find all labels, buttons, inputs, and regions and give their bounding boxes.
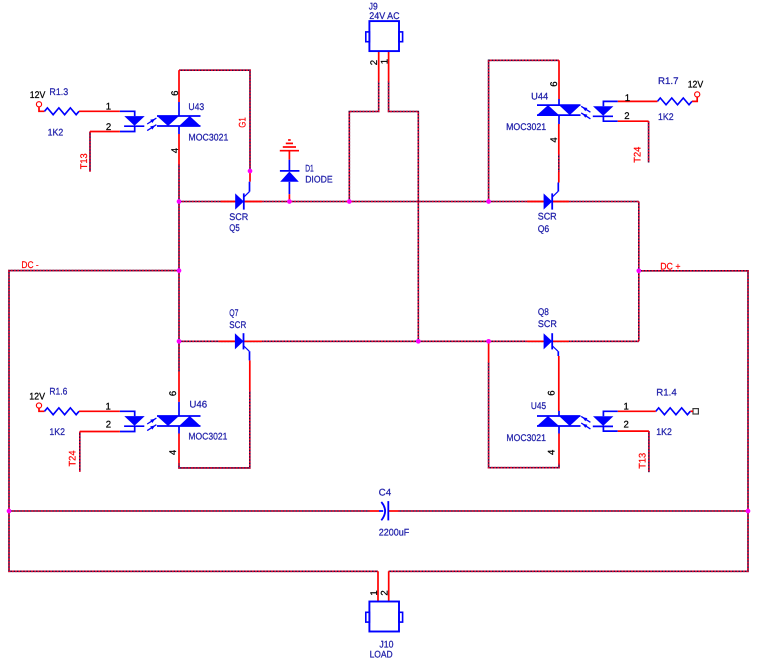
Q7 gate lead bbox=[249, 351, 251, 360]
U46 pin6 symbol lead bbox=[178, 402, 180, 416]
wire R1.7 to U44 pin1 bbox=[618, 100, 658, 102]
junction bus1/D1 bbox=[287, 199, 292, 204]
svg-text:6: 6 bbox=[549, 81, 560, 86]
svg-text:24V AC: 24V AC bbox=[369, 11, 399, 22]
svg-text:1K2: 1K2 bbox=[656, 427, 672, 438]
svg-text:G1: G1 bbox=[238, 117, 249, 128]
wire bus1 top bbox=[179, 201, 639, 203]
wire R1.6 to U46 pin1 bbox=[79, 410, 120, 412]
svg-text:12V: 12V bbox=[688, 80, 704, 91]
svg-text:1: 1 bbox=[106, 101, 111, 112]
wire 12V to R1.6 bbox=[39, 408, 45, 411]
svg-text:2: 2 bbox=[379, 590, 390, 595]
U44 pin6 symbol lead bbox=[558, 99, 560, 105]
wire Q6 anode pin bbox=[527, 201, 544, 203]
svg-text:SCR: SCR bbox=[229, 320, 246, 331]
Q6 gate lead bbox=[557, 183, 559, 192]
svg-text:T24: T24 bbox=[67, 450, 78, 467]
wire C4 right pin bbox=[388, 510, 398, 512]
svg-text:DC +: DC + bbox=[660, 262, 681, 273]
LED of optocoupler U46 bbox=[124, 416, 145, 426]
Q5 gate lead bbox=[249, 182, 251, 192]
U43 pin6 symbol lead bbox=[178, 102, 180, 116]
wire net DC- rail bbox=[9, 271, 378, 572]
wire U43 top box G1 bbox=[179, 70, 250, 171]
wire U44 top box bbox=[489, 60, 559, 201]
svg-text:SCR: SCR bbox=[538, 212, 557, 223]
resistor R1.4 bbox=[656, 408, 691, 415]
svg-text:T13: T13 bbox=[79, 153, 90, 169]
junction DC+ tap bbox=[636, 268, 641, 273]
svg-text:2200uF: 2200uF bbox=[379, 527, 410, 538]
svg-text:R1.4: R1.4 bbox=[656, 388, 677, 399]
wire Q7 gate stub bbox=[249, 360, 251, 390]
U44 pin2 elbow bbox=[603, 116, 617, 121]
ground bbox=[280, 140, 299, 151]
svg-text:Q7: Q7 bbox=[229, 308, 238, 319]
wire U46 pin2 to T24 bbox=[80, 431, 120, 433]
capacitor C4 bbox=[379, 501, 388, 520]
svg-text:6: 6 bbox=[547, 390, 558, 395]
wire Q8 anode pin bbox=[527, 340, 544, 342]
wire Q5 cathode pin bbox=[244, 201, 262, 203]
junction C4/DC- bbox=[7, 509, 12, 514]
svg-text:6: 6 bbox=[170, 91, 181, 96]
wire Q8 cathode pin bbox=[552, 340, 569, 342]
wire U45 pin4 stub bbox=[558, 434, 560, 464]
wire U43 pin4 wire bbox=[178, 164, 180, 202]
wire R1.4 to square bbox=[690, 410, 693, 412]
wire U45 pin4 to bus2 stub bbox=[488, 341, 490, 362]
resistor R1.3 bbox=[45, 108, 80, 115]
svg-text:12V: 12V bbox=[30, 90, 46, 101]
diode D1 bbox=[280, 160, 300, 195]
svg-text:12V: 12V bbox=[29, 391, 45, 402]
wire net DC+ rail bbox=[389, 271, 748, 572]
svg-text:2: 2 bbox=[624, 111, 629, 122]
Q8 gate lead bbox=[557, 351, 559, 356]
wire J9 pin 1 stub bbox=[388, 51, 390, 81]
junction G1 gate bbox=[248, 169, 253, 174]
svg-text:Q8: Q8 bbox=[538, 307, 549, 318]
wire R1.3 to U43 pin1 bbox=[79, 110, 120, 112]
svg-text:SCR: SCR bbox=[538, 319, 557, 330]
wire J10 pin 2 stub bbox=[388, 571, 390, 601]
resistor R1.7 bbox=[657, 98, 692, 105]
wire J9 pin 2 stub bbox=[378, 51, 380, 81]
U45 pin4 symbol lead bbox=[558, 426, 560, 434]
U46 pin4 symbol lead bbox=[178, 426, 180, 434]
junction bus2/J9 bbox=[416, 339, 421, 344]
connector J9 bbox=[366, 21, 403, 51]
wire U44 pin6 stub bbox=[558, 60, 560, 99]
svg-text:T24: T24 bbox=[632, 146, 643, 163]
wire net T24 stub bl bbox=[79, 432, 81, 472]
wire Q6 cathode pin bbox=[553, 201, 570, 203]
svg-text:Q6: Q6 bbox=[538, 224, 550, 235]
connector J10 bbox=[366, 602, 403, 632]
wire U45 pin2 to T13 bbox=[618, 430, 649, 432]
svg-text:R1.7: R1.7 bbox=[658, 76, 679, 87]
svg-text:2: 2 bbox=[106, 122, 111, 133]
wire R1.4 to U45 pin1 bbox=[618, 410, 656, 412]
junction bus1/J9 bbox=[347, 199, 352, 204]
junction bus1/left bbox=[177, 199, 182, 204]
svg-text:2: 2 bbox=[624, 420, 629, 431]
wire Q5 anode pin bbox=[220, 201, 235, 203]
wire U46 pin6 stub bbox=[178, 372, 180, 402]
svg-text:U44: U44 bbox=[531, 92, 549, 103]
svg-text:1: 1 bbox=[106, 401, 111, 412]
wire left vertical bus1-U46 bbox=[178, 202, 180, 372]
wire Q7 anode pin bbox=[219, 340, 235, 342]
svg-text:1: 1 bbox=[624, 401, 629, 412]
U43 pin2 elbow bbox=[120, 126, 135, 131]
svg-text:1: 1 bbox=[379, 59, 390, 64]
wire net T24 stub tr bbox=[648, 121, 650, 162]
wire right vertical bus1-bus2 bbox=[638, 202, 640, 342]
triac of U45 bbox=[537, 416, 581, 426]
light arrows of U43 bbox=[147, 118, 156, 131]
svg-text:2: 2 bbox=[369, 60, 380, 65]
U44 pin1 elbow bbox=[603, 101, 617, 106]
wire J9 pin2 to bus1 bbox=[349, 81, 378, 202]
svg-text:4: 4 bbox=[547, 449, 558, 455]
svg-text:4: 4 bbox=[168, 449, 179, 455]
wire Q6 gate stub bbox=[558, 172, 560, 183]
U45 pin1 elbow bbox=[603, 411, 617, 416]
open terminal 12V top-right bbox=[695, 92, 700, 97]
wire bus2 bottom bbox=[179, 340, 639, 342]
SCR Q7 bbox=[235, 333, 249, 351]
svg-text:1K2: 1K2 bbox=[48, 127, 64, 138]
U46 pin2 elbow bbox=[120, 426, 135, 431]
wire U46 pin4 stub bbox=[178, 434, 180, 464]
wire U44 pin4 stub bbox=[558, 124, 560, 154]
junction DC- tap bbox=[177, 268, 182, 273]
svg-text:U46: U46 bbox=[189, 400, 207, 411]
svg-text:SCR: SCR bbox=[229, 212, 248, 223]
wire U43 pin2 to T13 bbox=[90, 131, 120, 133]
svg-text:4: 4 bbox=[549, 137, 560, 143]
wire U43 pin4 stub bbox=[178, 134, 180, 164]
svg-text:4: 4 bbox=[170, 147, 181, 153]
light arrows of U44 bbox=[581, 106, 590, 119]
svg-text:1: 1 bbox=[625, 93, 630, 104]
svg-text:1: 1 bbox=[369, 590, 380, 595]
triac of U43 bbox=[157, 116, 201, 126]
wire U46 bottom box to Q7 gate bbox=[179, 390, 250, 468]
wire Q7 cathode pin bbox=[244, 340, 262, 342]
svg-text:DIODE: DIODE bbox=[305, 174, 332, 185]
svg-text:MOC3021: MOC3021 bbox=[506, 433, 546, 444]
svg-text:D1: D1 bbox=[305, 164, 314, 175]
wire J9 pin1 to bus2 bbox=[389, 81, 419, 341]
light arrows of U45 bbox=[581, 416, 590, 429]
svg-text:2: 2 bbox=[106, 420, 111, 431]
svg-text:DC -: DC - bbox=[21, 260, 38, 271]
junction bus2/left bbox=[177, 339, 182, 344]
SCR Q5 bbox=[235, 192, 249, 210]
U45 pin6 symbol lead bbox=[558, 411, 560, 416]
triac of U46 bbox=[157, 416, 201, 426]
U46 pin1 elbow bbox=[120, 411, 135, 416]
LED of optocoupler U45 bbox=[593, 416, 614, 426]
wire D1 anode pin bbox=[288, 194, 290, 201]
LED of optocoupler U44 bbox=[593, 106, 614, 116]
SCR Q6 bbox=[544, 192, 558, 210]
svg-text:6: 6 bbox=[168, 391, 179, 396]
wire C4 left pin bbox=[370, 510, 380, 512]
svg-text:MOC3021: MOC3021 bbox=[188, 132, 228, 143]
wire 12V to R1.3 bbox=[39, 107, 45, 111]
wire J10 pin 1 stub bbox=[377, 571, 379, 601]
triac of U44 bbox=[537, 105, 581, 115]
wire U44 pin4 wire mid bbox=[558, 154, 560, 172]
svg-text:LOAD: LOAD bbox=[370, 650, 393, 661]
open terminal 12V bottom-left bbox=[36, 403, 41, 408]
U43 pin1 elbow bbox=[120, 111, 135, 116]
resistor R1.6 bbox=[45, 408, 80, 415]
svg-text:MOC3021: MOC3021 bbox=[188, 432, 227, 443]
U43 pin4 symbol lead bbox=[178, 126, 180, 134]
svg-text:U43: U43 bbox=[188, 102, 204, 113]
wire U44 pin2 to T24 bbox=[618, 120, 649, 122]
wire U43 pin6 stub bbox=[178, 70, 180, 102]
junction bus1/U44 bbox=[486, 199, 491, 204]
svg-text:1K2: 1K2 bbox=[658, 112, 674, 123]
LED of optocoupler U43 bbox=[124, 116, 145, 126]
wire Q5 gate stub bbox=[249, 171, 251, 182]
wire net T13 stub br bbox=[648, 431, 650, 472]
light arrows of U46 bbox=[147, 418, 156, 431]
svg-text:MOC3021: MOC3021 bbox=[506, 122, 546, 133]
SCR Q8 bbox=[544, 333, 558, 351]
wire C4 row left bbox=[9, 510, 370, 512]
wire ground to D1 bbox=[288, 151, 290, 160]
open terminal 12V top-left bbox=[36, 102, 41, 107]
open terminal square R1.4 bbox=[693, 409, 698, 414]
U44 pin4 symbol lead bbox=[558, 115, 560, 124]
svg-text:1K2: 1K2 bbox=[49, 427, 65, 438]
wire Q8 gate to U45 pin6 bbox=[558, 356, 560, 411]
wire net T13 stub bbox=[89, 132, 91, 172]
junction bus2/U45 bbox=[486, 339, 491, 344]
U45 pin2 elbow bbox=[603, 426, 617, 431]
wire U45 bottom box to bus2 bbox=[489, 362, 559, 468]
wire C4 row right bbox=[398, 510, 748, 512]
wire 12V to R1.7 bbox=[692, 97, 697, 101]
svg-text:R1.6: R1.6 bbox=[49, 387, 67, 398]
junction C4/DC+ bbox=[746, 509, 751, 514]
svg-text:C4: C4 bbox=[379, 487, 392, 498]
svg-text:R1.3: R1.3 bbox=[49, 87, 68, 98]
svg-text:Q5: Q5 bbox=[229, 223, 239, 234]
svg-text:T13: T13 bbox=[637, 453, 648, 469]
svg-text:U45: U45 bbox=[531, 401, 546, 412]
